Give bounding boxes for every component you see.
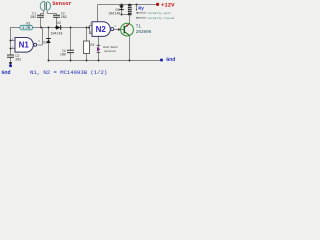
svg-text:N1: N1	[19, 41, 30, 50]
svg-text:2N3906: 2N3906	[136, 30, 152, 35]
svg-text:D2: D2	[57, 21, 61, 25]
svg-text:Gnd: Gnd	[2, 70, 11, 76]
svg-text:2N2: 2N2	[30, 15, 36, 19]
svg-text:1N4148: 1N4148	[108, 12, 120, 16]
svg-text:normally open: normally open	[147, 11, 171, 15]
svg-text:Gnd: Gnd	[166, 57, 175, 63]
svg-text:D1: D1	[43, 40, 47, 44]
svg-text:4.7M: 4.7M	[22, 26, 30, 30]
svg-text:Ry: Ry	[138, 5, 144, 11]
svg-text:normally closed: normally closed	[147, 16, 174, 20]
svg-text:T1: T1	[136, 25, 142, 30]
svg-text:(optional): (optional)	[104, 49, 117, 53]
svg-text:2N2: 2N2	[61, 15, 67, 19]
svg-text:R1: R1	[27, 21, 31, 25]
svg-text:N1, N2 = MC14093B (1/2): N1, N2 = MC14093B (1/2)	[30, 69, 107, 76]
svg-text:Reset Switch: Reset Switch	[103, 45, 118, 49]
svg-text:1N0: 1N0	[60, 53, 66, 57]
svg-text:R2: R2	[91, 43, 95, 47]
svg-text:2N2: 2N2	[15, 58, 21, 62]
svg-text:Sensor: Sensor	[52, 1, 71, 7]
svg-text:N2: N2	[96, 25, 107, 34]
svg-text:+12V: +12V	[161, 2, 175, 9]
svg-text:1N4148: 1N4148	[51, 31, 63, 35]
